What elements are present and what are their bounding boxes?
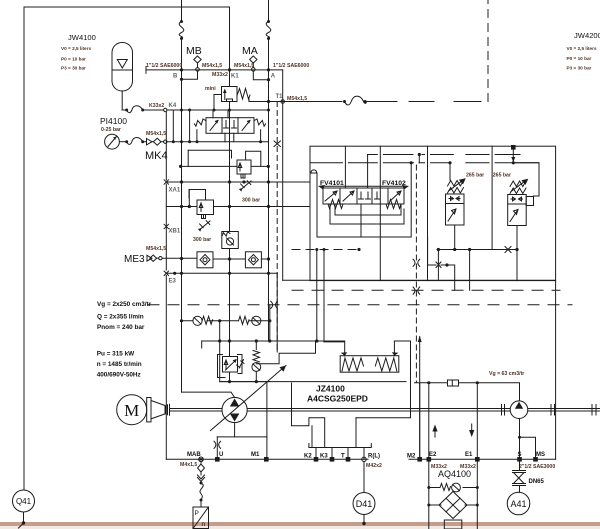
svg-text:n: n: [202, 521, 206, 528]
border frame left / tank line to Q41: [23, 7, 25, 490]
test point MB: [186, 45, 202, 71]
wire A jog: [253, 70, 270, 110]
wire LS dashed right: [292, 289, 560, 291]
wire K1 riser from frame: [229, 7, 231, 87]
valve check charge: [252, 341, 261, 383]
svg-text:MK4: MK4: [145, 150, 168, 162]
svg-text:K3: K3: [320, 454, 328, 460]
wire anticav line: [180, 319, 272, 322]
svg-text:1"1/2 SAE6000: 1"1/2 SAE6000: [273, 63, 309, 69]
wire MB riser: [179, 0, 184, 70]
test point ME3: [124, 246, 166, 265]
wire K4 drop legs: [165, 112, 167, 180]
motor M: [117, 395, 170, 425]
wire M2 line: [407, 383, 422, 462]
text JZ4100: [307, 384, 368, 404]
svg-text:P0 = 10 bar: P0 = 10 bar: [61, 57, 86, 62]
svg-text:DN65: DN65: [529, 479, 545, 485]
orifice check box 2: [245, 252, 261, 268]
floor line (pink): [0, 522, 600, 526]
svg-text:1"1/2 SAE6000: 1"1/2 SAE6000: [146, 63, 182, 69]
svg-text:V0 = 2,5 liters: V0 = 2,5 liters: [567, 46, 597, 51]
svg-text:0-25 bar: 0-25 bar: [101, 127, 121, 133]
accumulator JW4100: [61, 33, 133, 91]
valve check boxed: [222, 232, 239, 249]
node K4: [149, 103, 177, 112]
wire pump case drains: [214, 383, 267, 459]
bellows DN65: [513, 462, 545, 493]
svg-text:K2: K2: [304, 454, 312, 460]
wire K4 to valve block: [167, 109, 269, 111]
svg-text:M4x1,5: M4x1,5: [180, 462, 197, 468]
svg-text:M2: M2: [407, 454, 416, 460]
wire case drain rail: [220, 381, 520, 384]
valve FV main 3pos top: [195, 110, 266, 142]
wire PI4100 to MK4: [119, 137, 146, 144]
svg-text:K33x2: K33x2: [149, 103, 164, 109]
bracket K2K3T: [292, 383, 411, 469]
wire XA1 line: [164, 180, 310, 194]
wire FV drains: [310, 146, 539, 290]
svg-text:AQ4100: AQ4100: [438, 469, 471, 479]
wire DA drain: [220, 341, 270, 382]
valve reducing XB1 300bar: [189, 190, 214, 244]
wire ME3 line: [162, 257, 270, 261]
svg-text:M42x2: M42x2: [366, 463, 382, 469]
svg-text:Q = 2x355 l/min: Q = 2x355 l/min: [97, 314, 144, 321]
svg-text:Vg = 2x250 cm3/tr: Vg = 2x250 cm3/tr: [97, 301, 152, 308]
wire bottom port line: [166, 452, 368, 468]
svg-text:P3 = 30 bar: P3 = 30 bar: [567, 65, 592, 70]
svg-text:Vg = 63 cm3/tr: Vg = 63 cm3/tr: [489, 371, 524, 377]
wire MA riser: [266, 0, 271, 70]
gauge PI4100: [100, 116, 127, 149]
svg-text:400/690V-50Hz: 400/690V-50Hz: [97, 371, 141, 378]
svg-text:M54x1,5: M54x1,5: [202, 63, 222, 69]
svg-text:Pu = 315 kW: Pu = 315 kW: [97, 351, 135, 358]
text JW4200: [567, 31, 600, 70]
border frame top: [24, 6, 230, 8]
svg-text:n = 1485 tr/min: n = 1485 tr/min: [97, 361, 142, 368]
svg-text:M54x1,5: M54x1,5: [146, 131, 166, 137]
gauge D41: [353, 462, 375, 526]
wire T1 coupler drop: [274, 102, 280, 351]
wire block bottom: [283, 279, 556, 281]
wire S MS lines: [479, 419, 556, 471]
valve FV4101-FV4102: [318, 180, 409, 209]
servo cylinder: [340, 352, 399, 372]
valve check anticav A: [239, 316, 261, 325]
svg-text:U: U: [219, 452, 223, 458]
svg-text:Pnom = 240 bar: Pnom = 240 bar: [97, 324, 145, 331]
manifold block frame: [310, 146, 556, 280]
wire pilot upper: [179, 150, 270, 168]
wire T1 line: [249, 0, 488, 105]
svg-text:265 bar: 265 bar: [493, 173, 511, 179]
wire relief drain: [229, 102, 231, 111]
wire MK4 to block / valve drain rail: [167, 141, 269, 143]
wire coupler mid: [271, 165, 420, 382]
text pump data: [97, 301, 152, 378]
svg-text:M54x1,5: M54x1,5: [146, 246, 166, 252]
svg-text:XB1: XB1: [169, 229, 181, 235]
svg-text:T1: T1: [276, 94, 284, 100]
orifice inline: [448, 380, 459, 386]
wire E3 line: [166, 272, 277, 275]
svg-text:A4CSG250EPD: A4CSG250EPD: [307, 394, 368, 404]
wire LS dashed left: [148, 304, 572, 306]
block AQ4100: [409, 385, 480, 529]
svg-text:M54x1,5: M54x1,5: [234, 63, 254, 69]
wire rail corner down: [282, 70, 284, 280]
svg-text:300 bar: 300 bar: [193, 237, 211, 243]
wire servo left feed: [317, 250, 345, 356]
svg-text:2"1/2 SAE3000: 2"1/2 SAE3000: [519, 464, 555, 470]
relief valve mini: [205, 86, 250, 102]
gauge Q41: [13, 490, 35, 528]
svg-text:M1: M1: [251, 452, 260, 458]
svg-text:M33x2: M33x2: [212, 72, 228, 78]
wire servo right feed: [394, 336, 421, 459]
svg-text:MB: MB: [186, 45, 202, 57]
svg-text:MA: MA: [242, 45, 258, 57]
valve cartridge 265bar right: [493, 145, 539, 250]
wire E3 drop: [165, 276, 167, 460]
pump aux: [489, 371, 555, 419]
svg-text:XA1: XA1: [169, 188, 181, 194]
gauge A41: [507, 492, 530, 515]
wire cartridge bottom: [292, 247, 519, 291]
svg-text:T: T: [341, 454, 345, 460]
svg-text:R(L): R(L): [368, 454, 380, 460]
wire drops to servo rail: [220, 273, 278, 352]
wire main rail B-A: [146, 63, 309, 80]
wire accumulator to K4: [122, 91, 163, 113]
wire XB1 line: [164, 70, 310, 357]
pump main variable: [211, 366, 287, 431]
svg-text:Q41: Q41: [16, 497, 32, 506]
svg-text:A41: A41: [510, 499, 526, 509]
svg-text:M: M: [124, 401, 139, 420]
wire block inner verticals: [380, 146, 492, 280]
svg-text:A: A: [271, 74, 276, 80]
orifice check box 1: [197, 252, 213, 268]
svg-text:P: P: [195, 510, 199, 517]
svg-text:PI4100: PI4100: [100, 116, 127, 126]
valve check anticav B: [193, 316, 213, 325]
test point MA: [242, 45, 258, 71]
test point MK4: [145, 131, 168, 162]
svg-text:K4: K4: [169, 103, 177, 109]
svg-text:E3: E3: [169, 279, 177, 285]
wire Z link: [256, 341, 315, 364]
wire pump top link: [182, 321, 235, 397]
svg-text:MAB: MAB: [187, 452, 201, 458]
svg-text:265 bar: 265 bar: [466, 173, 484, 179]
wire servo rail: [202, 339, 345, 348]
svg-text:JW4200: JW4200: [574, 31, 600, 40]
svg-text:300 bar: 300 bar: [242, 198, 260, 204]
valve cartridge 265bar left: [446, 163, 485, 250]
wire relief pilot: [214, 95, 222, 111]
svg-text:JW4100: JW4100: [68, 33, 96, 42]
wire B jog: [180, 70, 198, 110]
svg-text:K1: K1: [231, 74, 239, 80]
svg-text:D41: D41: [356, 499, 373, 509]
svg-text:P3 = 30 bar: P3 = 30 bar: [61, 66, 86, 71]
transducer P/n branch: [193, 462, 209, 529]
svg-text:mini: mini: [205, 86, 216, 92]
node E3: [164, 271, 176, 284]
wire right border drop: [555, 281, 557, 460]
shaft: [170, 405, 600, 416]
svg-text:B: B: [173, 74, 178, 80]
valve reducing XA1 300bar: [237, 151, 261, 203]
svg-text:ME3: ME3: [124, 254, 145, 265]
svg-text:V0 = 2,5 liters: V0 = 2,5 liters: [61, 46, 91, 51]
svg-text:E1: E1: [465, 452, 473, 458]
svg-text:P0 = 10 bar: P0 = 10 bar: [567, 56, 592, 61]
svg-text:JZ4100: JZ4100: [316, 384, 345, 394]
valve DA control: [218, 355, 245, 384]
